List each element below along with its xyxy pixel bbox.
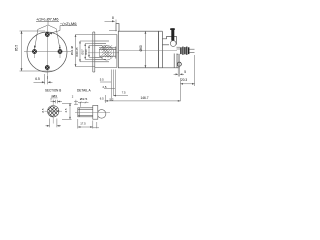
svg-text:5.2: 5.2 <box>110 98 114 102</box>
svg-text:−(×2),M6: −(×2),M6 <box>60 22 77 26</box>
svg-text:+(3×),Ø7,M6: +(3×),Ø7,M6 <box>36 18 59 22</box>
svg-text:Ø2.5: Ø2.5 <box>80 97 88 101</box>
svg-text:6.5: 6.5 <box>35 77 40 81</box>
svg-text:85.5: 85.5 <box>15 45 19 51</box>
svg-text:146.7: 146.7 <box>141 96 149 100</box>
svg-text:Ø48.25: Ø48.25 <box>75 47 79 57</box>
svg-text:8.5: 8.5 <box>41 108 45 112</box>
svg-text:8: 8 <box>112 16 114 20</box>
svg-text:4.5: 4.5 <box>64 108 68 112</box>
svg-text:7.5: 7.5 <box>122 90 126 94</box>
svg-text:DETAIL A: DETAIL A <box>77 89 92 93</box>
svg-text:5.5: 5.5 <box>100 78 104 82</box>
svg-text:Ø63.48: Ø63.48 <box>70 45 74 55</box>
svg-text:20.3: 20.3 <box>181 78 187 82</box>
svg-text:4Ø3: 4Ø3 <box>51 94 57 98</box>
svg-text:5: 5 <box>184 70 186 74</box>
svg-text:SECTION B: SECTION B <box>45 89 61 93</box>
svg-text:2.5: 2.5 <box>103 85 107 89</box>
svg-text:Ø10: Ø10 <box>84 49 88 55</box>
svg-text:6.5: 6.5 <box>100 96 104 100</box>
svg-text:Ø60: Ø60 <box>139 45 143 51</box>
svg-text:17.5: 17.5 <box>80 122 86 126</box>
